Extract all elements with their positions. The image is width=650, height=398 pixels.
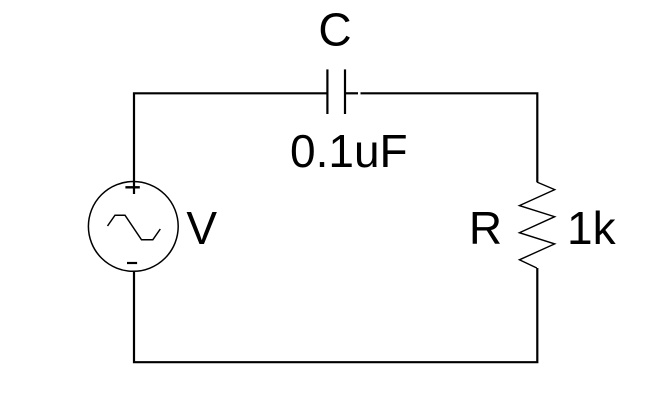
minus sign bar of source — [127, 262, 137, 264]
wire: short stub right of capacitor — [345, 92, 358, 94]
resistor R zigzag — [519, 182, 554, 268]
svg-text:1k: 1k — [567, 202, 617, 254]
wire: top rail right segment and right vertical down to resistor — [361, 93, 538, 182]
wire: top rail left segment and left vertical down into source — [134, 93, 327, 194]
capacitor C plate left — [326, 69, 328, 114]
svg-text:V: V — [186, 202, 217, 254]
voltage source sine wave — [108, 215, 161, 240]
capacitor C plate right — [344, 69, 346, 114]
svg-text:0.1uF: 0.1uF — [290, 125, 408, 177]
voltage source V circle — [88, 182, 178, 272]
wire: left vertical below source, bottom rail, right vertical up to resistor — [134, 268, 537, 362]
svg-text:R: R — [469, 202, 502, 254]
svg-text:C: C — [318, 4, 351, 56]
plus sign bar of source — [125, 186, 139, 188]
